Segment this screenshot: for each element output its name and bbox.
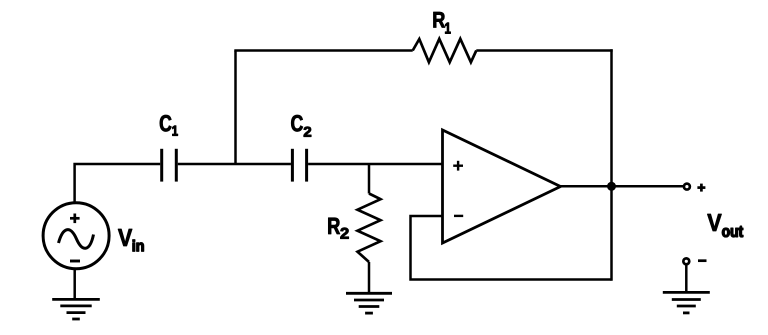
label Vout xyxy=(707,214,743,237)
label R1 xyxy=(434,12,451,34)
capacitor C2 xyxy=(292,149,306,182)
node A vertical wire to top xyxy=(234,51,237,165)
ground below output terminal xyxy=(663,292,710,313)
wire R2 to ground xyxy=(368,262,371,293)
voltage source Vin xyxy=(43,203,109,269)
wire R1 to output vertical xyxy=(476,49,612,52)
label C2 xyxy=(291,115,311,137)
wire top left to R1 xyxy=(234,49,412,52)
wire Vin top to main node xyxy=(75,164,161,202)
ground below R2 xyxy=(346,293,392,313)
wire C1 to C2 xyxy=(178,163,291,166)
output vertical wire xyxy=(610,49,613,280)
label R2 xyxy=(328,218,348,239)
feedback wire from inverting input to output xyxy=(411,216,612,280)
wire terminal - to ground xyxy=(685,266,688,293)
output terminal - xyxy=(683,258,689,264)
label C1 xyxy=(160,115,178,136)
node junction dot at output xyxy=(607,182,616,191)
wire Vin bottom to ground xyxy=(73,269,76,300)
op-amp U1 xyxy=(443,130,561,243)
wire junction to R2 xyxy=(368,164,371,194)
wire C2 to op-amp + input xyxy=(308,163,442,166)
output terminal + xyxy=(684,184,690,190)
wire op-amp output to terminal xyxy=(560,185,684,188)
capacitor C1 xyxy=(162,149,177,182)
label Vin xyxy=(118,229,144,251)
resistor R2 xyxy=(358,194,381,263)
ground below Vin xyxy=(52,299,100,319)
resistor R1 xyxy=(413,39,477,62)
